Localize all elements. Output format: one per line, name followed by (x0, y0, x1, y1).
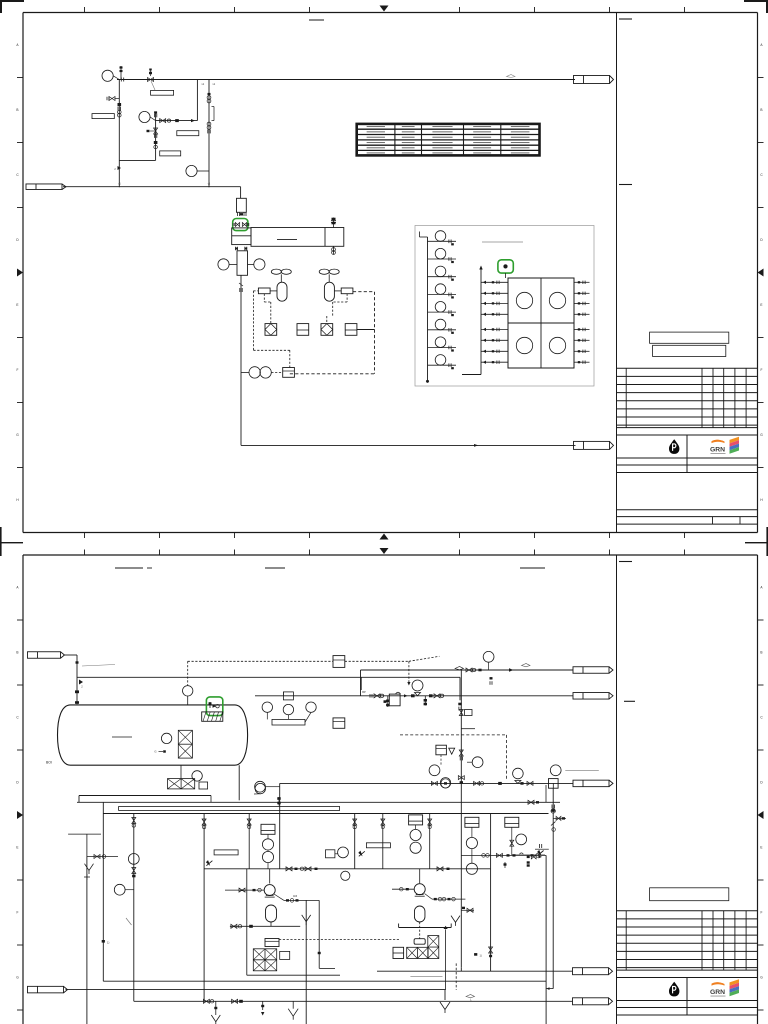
svg-text:403: 403 (293, 895, 298, 898)
svg-text:E: E (760, 303, 762, 307)
svg-text:F: F (17, 368, 19, 372)
svg-text:BP: BP (362, 690, 366, 694)
svg-text:BOI: BOI (46, 761, 52, 765)
svg-text:E: E (760, 846, 762, 850)
svg-text:F: F (17, 911, 19, 915)
svg-text:B: B (16, 108, 18, 112)
svg-text:B: B (16, 651, 18, 655)
svg-text:E: E (16, 846, 18, 850)
svg-text:E: E (16, 303, 18, 307)
svg-text:B: B (760, 108, 762, 112)
svg-text:B: B (760, 651, 762, 655)
svg-text:F: F (761, 911, 763, 915)
svg-text:F: F (761, 368, 763, 372)
svg-text:GRN: GRN (710, 446, 725, 453)
svg-text:1): 1) (480, 954, 482, 958)
svg-text:GRN: GRN (710, 989, 725, 996)
svg-text:G: G (154, 750, 156, 754)
svg-text:1): 1) (107, 941, 109, 945)
